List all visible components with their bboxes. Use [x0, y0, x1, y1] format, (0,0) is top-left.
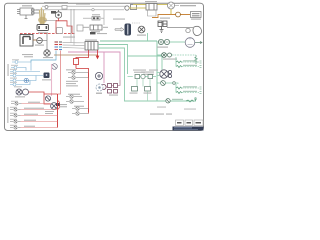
small box top — [62, 6, 67, 10]
junction box top — [125, 5, 137, 11]
dip switch — [44, 73, 50, 79]
wire: pink vertical band — [51, 64, 53, 96]
tiny label top mid — [76, 4, 90, 5]
horn label — [15, 96, 25, 97]
wire: red row 3 — [21, 115, 58, 117]
wire — [46, 34, 48, 50]
row2 label — [163, 59, 177, 60]
wire: top bus line 1 — [42, 5, 128, 7]
row5 label — [24, 126, 35, 127]
gauge circle mid — [95, 72, 102, 79]
wire: green dashed row4 — [182, 66, 199, 68]
flasher bracket — [148, 10, 157, 16]
bottom row label — [172, 99, 183, 100]
wire: cluster links — [128, 76, 157, 78]
motor circle — [138, 26, 145, 33]
mid lamp pair row D — [66, 95, 82, 98]
wire: orange run — [152, 15, 190, 18]
title block cells — [176, 120, 204, 126]
wire: cluster drops — [137, 79, 150, 87]
bottom small text — [157, 107, 196, 110]
wire: yellow run lower — [129, 7, 146, 9]
wire: green dashed row5 — [182, 87, 199, 89]
blue row tags — [10, 59, 22, 87]
wire: pink drop — [103, 52, 105, 83]
tank units — [132, 87, 151, 92]
bottom row circle — [166, 99, 170, 103]
wire: green bracket rows 3-4 — [175, 57, 177, 67]
terminal box text — [192, 13, 200, 14]
starter label — [43, 57, 53, 58]
title bar — [173, 127, 204, 131]
motor label — [137, 35, 146, 36]
lamp row blue 3 — [10, 70, 40, 73]
row6 label — [183, 91, 197, 92]
flasher pair label — [157, 47, 168, 48]
small relay top — [92, 17, 100, 21]
lighting switch — [52, 64, 58, 70]
lamp row blue 4 — [10, 74, 43, 77]
wire: green bus A drop — [156, 41, 158, 101]
bottom row end comps — [186, 98, 197, 102]
wire: green dashed row3 — [182, 61, 199, 63]
wiper label left — [141, 72, 154, 75]
wire: green row 2 — [157, 54, 161, 56]
panel cluster label — [109, 95, 118, 96]
ignition sw circle — [45, 96, 50, 101]
solenoid label — [35, 45, 44, 46]
loom knot — [38, 17, 47, 23]
wire: red dashed feed — [20, 33, 75, 35]
wire: dashed link — [132, 22, 140, 24]
starter solenoid — [37, 38, 43, 44]
wire: solenoid to starter feed — [42, 40, 47, 42]
row5 end — [200, 87, 202, 89]
bottom lamp row 4 — [10, 120, 21, 123]
pump label — [113, 19, 125, 20]
beam circle — [24, 78, 28, 82]
flasher label — [145, 1, 157, 2]
left rotated label bottom — [7, 107, 8, 123]
bottom lamp row 2 — [10, 108, 21, 111]
mid lamp pair row G — [72, 112, 89, 115]
terminal box right — [191, 12, 202, 18]
wire: green bracket rows 5-6 — [175, 84, 177, 93]
key sw dark — [56, 103, 60, 106]
horn left — [16, 89, 29, 95]
dynamo — [37, 25, 49, 31]
mid lamp pair row E — [66, 100, 84, 103]
wire: yellow run upper — [133, 4, 168, 6]
lamp tags bottom rows — [10, 101, 18, 126]
wire: arrow out — [195, 41, 202, 43]
ignition switch labels — [83, 27, 108, 33]
fuse red — [74, 50, 89, 112]
dynamo label — [38, 32, 48, 33]
wiper pump arrow — [115, 28, 124, 32]
wire: red horn run — [29, 92, 58, 104]
ground symbol — [160, 27, 164, 33]
wire: tank drop — [147, 91, 149, 101]
wire: top bus line 2 — [36, 9, 124, 11]
wiper motor — [160, 70, 172, 78]
wire: red drop from connector — [58, 51, 61, 95]
wire: pink run — [68, 52, 120, 80]
wire: yellow drop — [170, 9, 172, 15]
aux box — [77, 25, 83, 31]
dip label — [42, 79, 51, 80]
wire: green to speedo — [170, 41, 186, 43]
tick between gauges — [96, 93, 102, 94]
row4 label — [24, 120, 36, 121]
wire: gray drop pair — [70, 9, 72, 38]
wire: gray run to snap — [167, 27, 193, 29]
bottom lamp row 5 — [10, 126, 21, 129]
row5 squiggle — [176, 87, 182, 89]
wire: teal stub — [147, 33, 149, 41]
top right label — [180, 3, 200, 7]
wire: brown run — [54, 54, 98, 56]
wire: green dashed row6 — [182, 92, 199, 94]
left label small — [22, 54, 33, 57]
control box — [85, 42, 98, 51]
small connector — [186, 28, 190, 32]
row4 end — [200, 66, 202, 68]
connector block — [55, 42, 63, 50]
ignition coil label — [22, 5, 32, 6]
wire: teal box top — [128, 56, 163, 70]
bus junction circle — [92, 9, 94, 11]
indicator circle — [176, 12, 181, 17]
flasher circle — [168, 2, 175, 9]
wire: red row 1 — [22, 103, 52, 105]
wire: loom into control box — [63, 38, 86, 48]
ignition switch label — [45, 111, 54, 114]
cluster labels — [133, 70, 158, 73]
dark fuse mark — [90, 32, 96, 34]
ignition switch box — [90, 25, 102, 30]
courtesy row circle — [161, 81, 176, 86]
bottom lamp row 1 — [11, 102, 22, 105]
row3 label — [183, 60, 197, 61]
panel switch cluster — [101, 84, 118, 94]
ignition coil — [17, 8, 39, 19]
key sw circle — [51, 103, 58, 110]
panel cluster link — [106, 80, 120, 87]
wire: green row courtesy — [157, 83, 178, 84]
tank labels — [130, 93, 152, 94]
mid rowA red link — [88, 73, 90, 78]
wire: drop to ignition switch — [103, 10, 105, 25]
note text above title — [150, 114, 172, 115]
mid row D label — [68, 94, 80, 95]
mid lamp pair row A — [68, 71, 89, 74]
row6 squiggle — [176, 92, 182, 94]
left rotated label — [8, 64, 9, 76]
row4 squiggle — [176, 66, 182, 68]
fuel gauge stabilizer — [158, 21, 167, 27]
starter motor — [44, 50, 50, 56]
clock circle — [96, 84, 103, 91]
heater motor pair — [162, 53, 172, 58]
row2 label — [24, 108, 44, 109]
fuel gauge cluster top — [135, 74, 153, 78]
blob component — [193, 26, 202, 35]
row4 label — [183, 65, 197, 66]
mid rowFG red link — [88, 109, 90, 114]
flasher switch pair — [158, 39, 169, 44]
distributor — [55, 10, 61, 18]
wire: crossing feed — [44, 20, 57, 22]
control box label — [85, 40, 97, 41]
row3 end — [200, 61, 202, 63]
wire: green bus C — [98, 48, 196, 101]
wire: khaki loom bundle — [40, 8, 46, 25]
speedometer — [185, 38, 195, 48]
row3 squiggle — [176, 61, 182, 63]
lamp row blue 1 — [12, 61, 31, 71]
row6 end — [200, 92, 202, 94]
red arrow drop — [96, 50, 98, 59]
wire: green bus B — [98, 45, 128, 75]
mid labels — [66, 69, 78, 86]
fuse mark text — [97, 33, 107, 34]
row2 squiggle — [195, 55, 198, 63]
mid text rows — [66, 81, 78, 84]
wire: red row 5 — [21, 127, 58, 129]
connector label — [63, 37, 75, 38]
flasher unit — [146, 4, 157, 11]
row3 label — [24, 114, 38, 115]
relay label — [92, 14, 100, 15]
warning lamp label — [44, 2, 68, 3]
bottom lamp row 3 — [10, 114, 21, 117]
wire — [73, 9, 75, 38]
wire: red row 4 — [21, 121, 58, 123]
lamp row blue 5 — [10, 76, 36, 82]
side label right of rows — [60, 104, 67, 107]
border frame — [5, 3, 204, 130]
title block text marks — [177, 122, 201, 124]
wire: red row 2 — [21, 109, 58, 111]
wire: green bus A — [100, 40, 157, 42]
warning lamp — [45, 6, 48, 9]
wire: brown feed — [33, 34, 47, 41]
wire: red spine bottom — [57, 94, 59, 128]
lamp row blue 6 — [10, 81, 30, 87]
label under orange — [160, 18, 170, 19]
mid lamp pair row F — [72, 107, 89, 110]
wire: red ignition loop — [56, 18, 72, 33]
wire: green dashed row2 — [172, 54, 196, 56]
connector block — [51, 11, 56, 14]
lamp row blue 2 — [11, 66, 26, 71]
loop box — [57, 28, 63, 34]
wire: blue drop from connector — [31, 51, 56, 63]
fuel pump body — [125, 24, 132, 36]
wire — [56, 11, 62, 13]
row5 label — [183, 86, 197, 87]
mid lamp pair row B — [68, 76, 89, 79]
battery — [20, 35, 33, 47]
row1 label — [28, 102, 40, 103]
mid row F label — [74, 106, 84, 107]
red arc around switch — [58, 101, 60, 110]
wire: green into wiper — [157, 73, 160, 76]
